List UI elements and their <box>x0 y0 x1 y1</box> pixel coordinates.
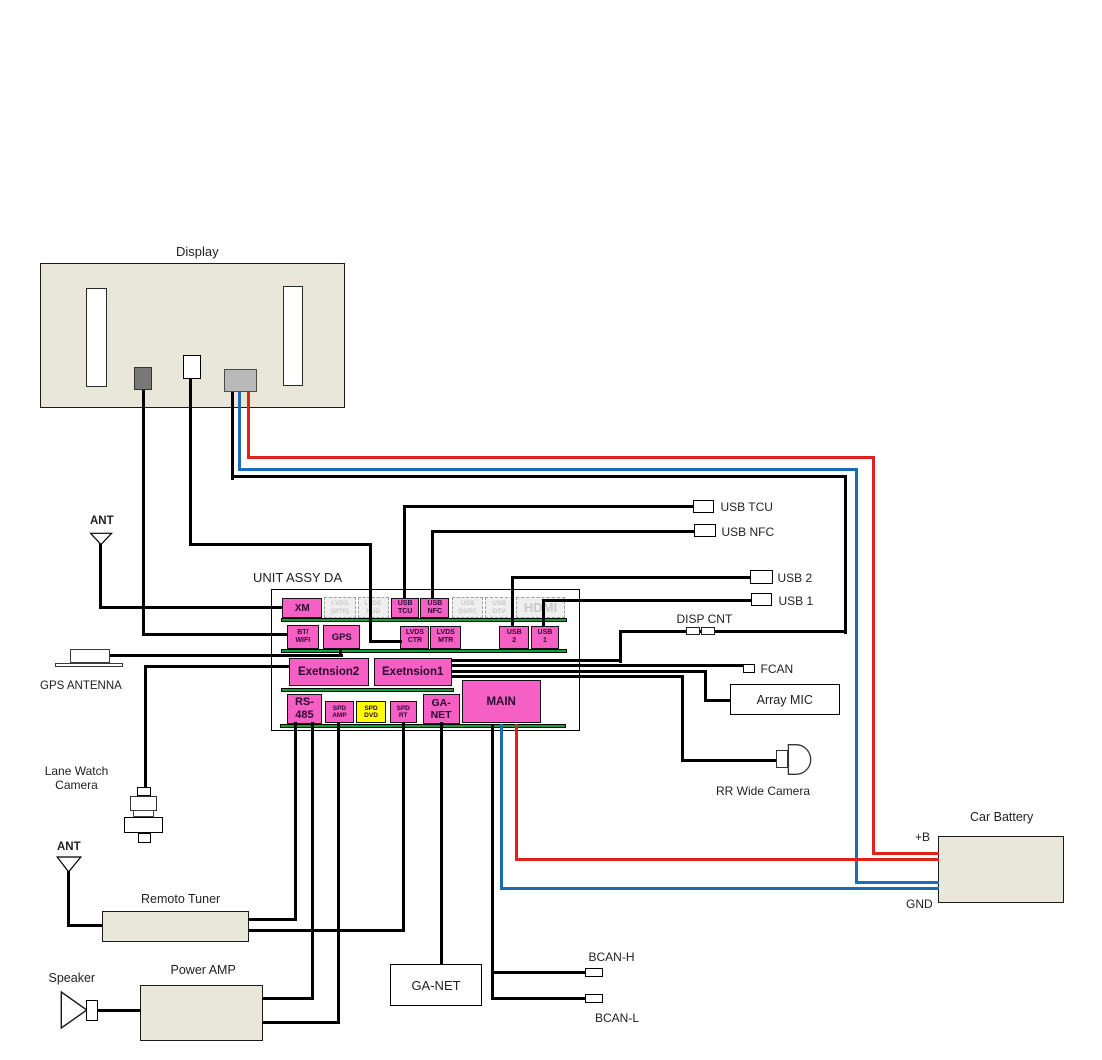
wire usb1 vertical <box>542 599 545 626</box>
wire disp cnt vertical <box>619 630 622 664</box>
pcb bar row4 <box>280 724 566 728</box>
wire display red h1 <box>247 456 875 459</box>
label GND <box>906 897 933 911</box>
connector plug USB 2 <box>750 570 772 585</box>
wire spd rt to tuner <box>248 929 405 932</box>
label ANT bottom <box>57 841 81 853</box>
wire display blue to battery h2 <box>855 881 939 884</box>
antenna ANT bottom <box>54 854 82 874</box>
lane camera upper body <box>130 796 156 811</box>
wire display blue h1 <box>238 468 859 471</box>
array mic box <box>730 684 840 715</box>
label USB 1 <box>779 594 814 608</box>
ga-net box <box>390 964 482 1006</box>
connector USB 1 <box>531 626 560 650</box>
label Lane Watch Camera <box>40 764 113 792</box>
wire usb2 horizontal <box>511 576 752 579</box>
connector LVDS CTR <box>400 626 429 650</box>
wire main red vertical <box>515 724 518 861</box>
label FCAN <box>761 662 794 676</box>
pcb bar row2 <box>281 649 567 653</box>
wire usb tcu vertical <box>403 505 406 598</box>
connector Exetnsion2 <box>289 658 369 686</box>
wire array mic vertical <box>704 670 707 702</box>
wire spd amp to power amp <box>262 1021 340 1024</box>
wire disp cnt to exetnsion1 <box>452 659 622 662</box>
wire gps antenna horizontal <box>108 654 343 657</box>
wire ant2 mast <box>67 857 70 927</box>
wire rs485-1 to tuner <box>248 918 297 921</box>
label BCAN-H <box>589 950 635 964</box>
display unit box <box>40 263 345 408</box>
connector plug FCAN <box>743 664 755 673</box>
connector BT/WIFI <box>287 625 320 649</box>
display connector light gray <box>224 369 257 392</box>
wire usb1 horizontal <box>542 599 752 602</box>
wire rr camera h2 <box>681 759 777 762</box>
wire array mic h1 <box>452 670 707 673</box>
connector SPD DVD <box>356 701 387 723</box>
label DISP CNT <box>677 612 733 626</box>
wire display black v2 <box>844 475 847 634</box>
connector plug USB 1 <box>751 593 773 606</box>
wire ant1 mast <box>99 533 102 609</box>
label Remoto Tuner <box>141 892 220 906</box>
connector RS-485 <box>287 694 322 724</box>
wire ant2 to tuner <box>67 924 103 927</box>
connector plug USB NFC <box>694 524 716 537</box>
wire display blue v2 <box>855 468 858 884</box>
lane camera neck <box>133 810 154 817</box>
wire rs485-2 vertical <box>311 722 314 1000</box>
connector GPS <box>323 625 360 649</box>
wire ant1 to XM <box>99 606 283 609</box>
wire main black vertical <box>491 724 494 1000</box>
wire display darkgray to BT/WIFI vertical <box>142 388 145 636</box>
wire display white to LVDS CTR v2 <box>369 543 372 644</box>
label Display <box>176 244 219 259</box>
connector SPD AMP <box>325 701 354 723</box>
connector LVDS (MTR) disabled <box>324 597 355 618</box>
label Power AMP <box>171 963 236 977</box>
wire speaker to power amp <box>97 1009 141 1012</box>
wire array mic h2 <box>704 699 731 702</box>
connector Exetnsion1 <box>374 658 452 686</box>
wire spd rt vertical <box>402 722 405 932</box>
wire main blue to battery <box>500 887 939 890</box>
power amp box <box>140 985 263 1041</box>
wire display white to LVDS CTR h2 <box>369 640 402 643</box>
label ANT top <box>90 515 114 527</box>
display right slot <box>283 286 303 386</box>
display left slot <box>86 288 107 387</box>
wire display red v2 <box>872 456 875 855</box>
connector USB TCU <box>391 598 420 618</box>
wire display red to battery h2 <box>872 852 939 855</box>
connector USB NFC <box>420 598 449 618</box>
wire spd amp vertical <box>337 722 340 1024</box>
label BCAN-L <box>595 1011 639 1025</box>
wire bcan-h horizontal <box>491 971 586 974</box>
wire lane camera vertical <box>144 665 147 788</box>
lane camera lower body <box>124 817 163 833</box>
label USB TCU <box>721 500 773 514</box>
gps antenna base <box>55 663 123 668</box>
label GPS ANTENNA <box>40 680 122 692</box>
wire display black v1 <box>231 389 234 480</box>
disp cnt plug 1 <box>686 627 700 635</box>
wire usb nfc horizontal <box>431 530 695 533</box>
speaker cone <box>58 988 90 1032</box>
label +B <box>915 830 930 844</box>
display connector dark gray <box>134 367 152 390</box>
speaker magnet <box>86 1000 97 1021</box>
connector plug BCAN-H <box>585 968 603 977</box>
disp cnt plug 2 <box>701 627 715 635</box>
wire ga-net vertical <box>440 722 443 965</box>
label USB NFC <box>722 525 775 539</box>
display connector white <box>183 355 201 379</box>
connector LVDS MTR <box>430 626 461 650</box>
connector USB DSRC disabled <box>452 597 483 618</box>
wire gps stub vertical <box>339 648 342 657</box>
connector MAIN <box>462 680 541 723</box>
wire display blue v1 <box>238 389 241 471</box>
car battery box <box>938 836 1064 903</box>
label Speaker <box>49 971 96 985</box>
wire main red to battery <box>515 858 939 861</box>
label Car Battery <box>970 810 1033 824</box>
wire display white to LVDS CTR h1 <box>189 543 372 546</box>
connector HDMI disabled <box>516 597 565 618</box>
wire usb tcu horizontal <box>403 505 694 508</box>
connector LVDS HUD disabled <box>358 597 389 618</box>
wire display white to LVDS CTR v1 <box>189 377 192 546</box>
connector XM <box>282 598 322 618</box>
wire rs485-1 vertical <box>294 722 297 921</box>
pcb bar row1 <box>281 618 567 622</box>
wire usb2 vertical <box>511 576 514 627</box>
wire rr camera vertical <box>681 675 684 762</box>
label RR Wide Camera <box>716 784 810 798</box>
remoto tuner box <box>102 911 249 942</box>
wire display darkgray to BT/WIFI horizontal <box>142 633 287 636</box>
pcb bar row3 <box>281 688 455 692</box>
connector plug USB TCU <box>693 500 715 514</box>
wire main blue vertical <box>500 724 503 890</box>
rr camera body <box>787 743 814 777</box>
rr camera plug <box>776 750 789 769</box>
wire fcan horizontal <box>452 664 744 667</box>
wire usb nfc vertical <box>431 530 434 598</box>
connector USB 2 <box>499 626 529 650</box>
wire rr camera h1 <box>452 675 684 678</box>
lane camera bottom tab <box>138 833 151 843</box>
antenna ANT top <box>87 530 115 550</box>
connector plug BCAN-L <box>585 994 603 1003</box>
wire bcan-l horizontal <box>491 997 586 1000</box>
wire lane camera to exetnsion2 <box>144 665 290 668</box>
wire display black h1 <box>231 475 846 478</box>
wire display red v1 <box>247 389 250 459</box>
lane camera top tab <box>137 787 151 796</box>
label USB 2 <box>778 571 813 585</box>
wire rs485-2 to power amp <box>262 997 314 1000</box>
wire disp cnt horizontal <box>619 630 847 633</box>
label UNIT ASSY DA <box>253 570 342 585</box>
connector USB DTV disabled <box>485 597 513 618</box>
connector GA-NET <box>423 694 460 724</box>
gps antenna top part <box>70 649 110 663</box>
unit assy da outer box <box>271 589 580 731</box>
connector SPD RT <box>390 701 417 723</box>
